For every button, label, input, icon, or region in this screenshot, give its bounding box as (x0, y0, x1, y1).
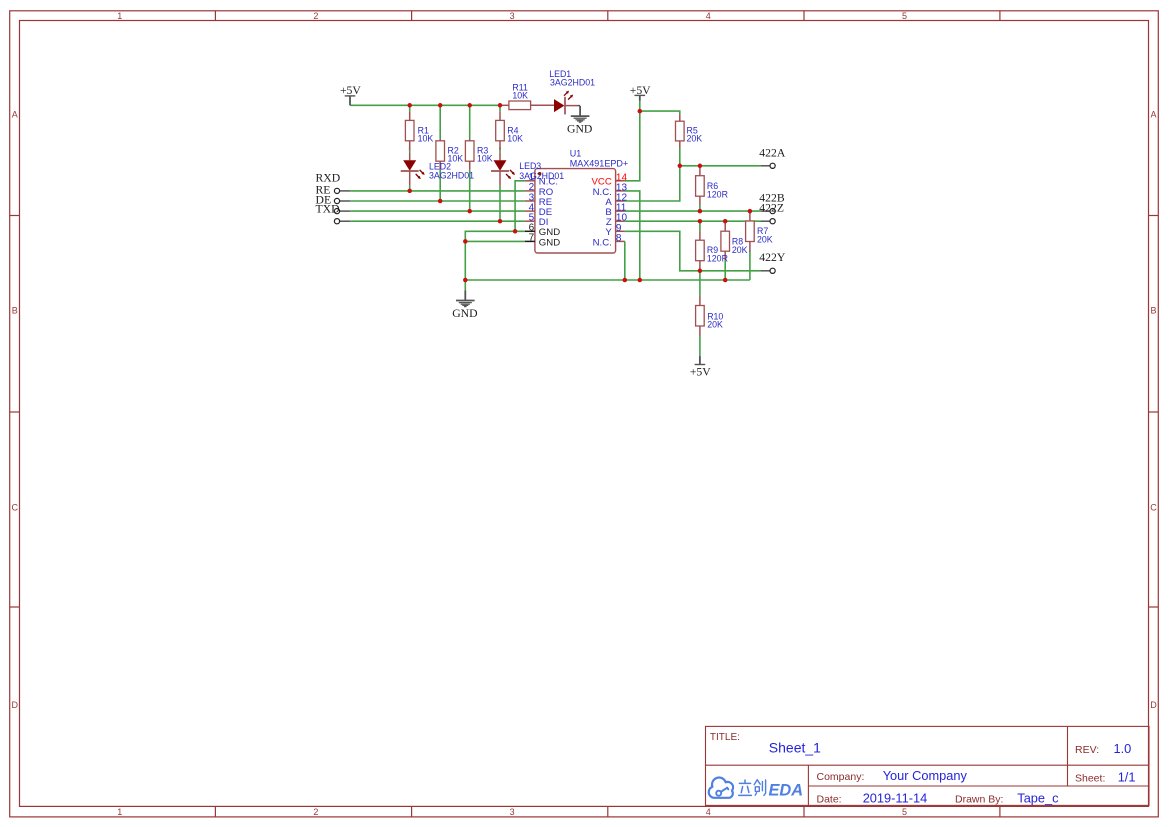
svg-text:120R: 120R (707, 253, 728, 263)
svg-text:3AG2HD01: 3AG2HD01 (550, 78, 595, 88)
svg-text:5: 5 (902, 11, 907, 21)
svg-text:Sheet_1: Sheet_1 (769, 740, 821, 756)
svg-text:5: 5 (902, 807, 907, 817)
svg-text:Date:: Date: (817, 794, 842, 806)
svg-text:Your Company: Your Company (883, 768, 968, 783)
svg-text:Tape_c: Tape_c (1017, 790, 1059, 805)
svg-text:B: B (12, 305, 18, 315)
svg-text:D: D (11, 700, 18, 710)
svg-text:20K: 20K (732, 245, 748, 255)
svg-text:2019-11-14: 2019-11-14 (863, 790, 928, 805)
svg-text:GND: GND (539, 237, 560, 248)
svg-text:10K: 10K (512, 91, 528, 101)
svg-text:1: 1 (117, 11, 122, 21)
svg-text:422Y: 422Y (759, 251, 786, 264)
svg-text:TXD: TXD (316, 203, 340, 216)
svg-text:20K: 20K (757, 235, 773, 245)
svg-text:2: 2 (313, 11, 318, 21)
svg-text:422A: 422A (759, 147, 786, 160)
svg-text:GND: GND (567, 122, 592, 135)
svg-text:MAX491EPD+: MAX491EPD+ (570, 159, 628, 169)
svg-text:3: 3 (510, 807, 515, 817)
svg-text:TITLE:: TITLE: (710, 732, 740, 743)
svg-text:EDA: EDA (769, 781, 804, 799)
svg-text:B: B (1150, 305, 1156, 315)
svg-text:C: C (11, 503, 18, 513)
svg-text:4: 4 (706, 807, 711, 817)
svg-text:LED3: LED3 (519, 161, 541, 171)
svg-text:Company:: Company: (817, 771, 865, 783)
svg-text:10K: 10K (507, 134, 523, 144)
svg-text:C: C (1150, 503, 1157, 513)
svg-text:3AG2HD01: 3AG2HD01 (429, 170, 474, 180)
svg-text:7: 7 (529, 233, 535, 244)
svg-text:422Z: 422Z (759, 201, 784, 214)
svg-text:REV:: REV: (1075, 744, 1099, 756)
svg-text:A: A (12, 109, 18, 119)
svg-text:U1: U1 (570, 149, 582, 159)
svg-text:10K: 10K (477, 153, 493, 163)
svg-text:A: A (1150, 109, 1156, 119)
svg-text:1: 1 (117, 807, 122, 817)
svg-text:+5V: +5V (690, 365, 711, 378)
svg-text:3: 3 (510, 11, 515, 21)
svg-text:N.C.: N.C. (593, 237, 612, 248)
svg-text:+5V: +5V (340, 84, 361, 97)
svg-text:20K: 20K (687, 134, 703, 144)
svg-text:D: D (1150, 700, 1157, 710)
svg-text:1/1: 1/1 (1118, 769, 1136, 784)
svg-text:10K: 10K (418, 134, 434, 144)
svg-text:8: 8 (616, 233, 622, 244)
svg-text:Sheet:: Sheet: (1075, 772, 1105, 784)
svg-text:+5V: +5V (630, 84, 651, 97)
svg-text:1.0: 1.0 (1114, 741, 1132, 756)
svg-text:GND: GND (452, 307, 477, 320)
svg-text:120R: 120R (707, 190, 728, 200)
svg-text:2: 2 (313, 807, 318, 817)
svg-text:20K: 20K (707, 320, 723, 330)
svg-text:4: 4 (706, 11, 711, 21)
svg-text:Drawn By:: Drawn By: (955, 794, 1003, 806)
